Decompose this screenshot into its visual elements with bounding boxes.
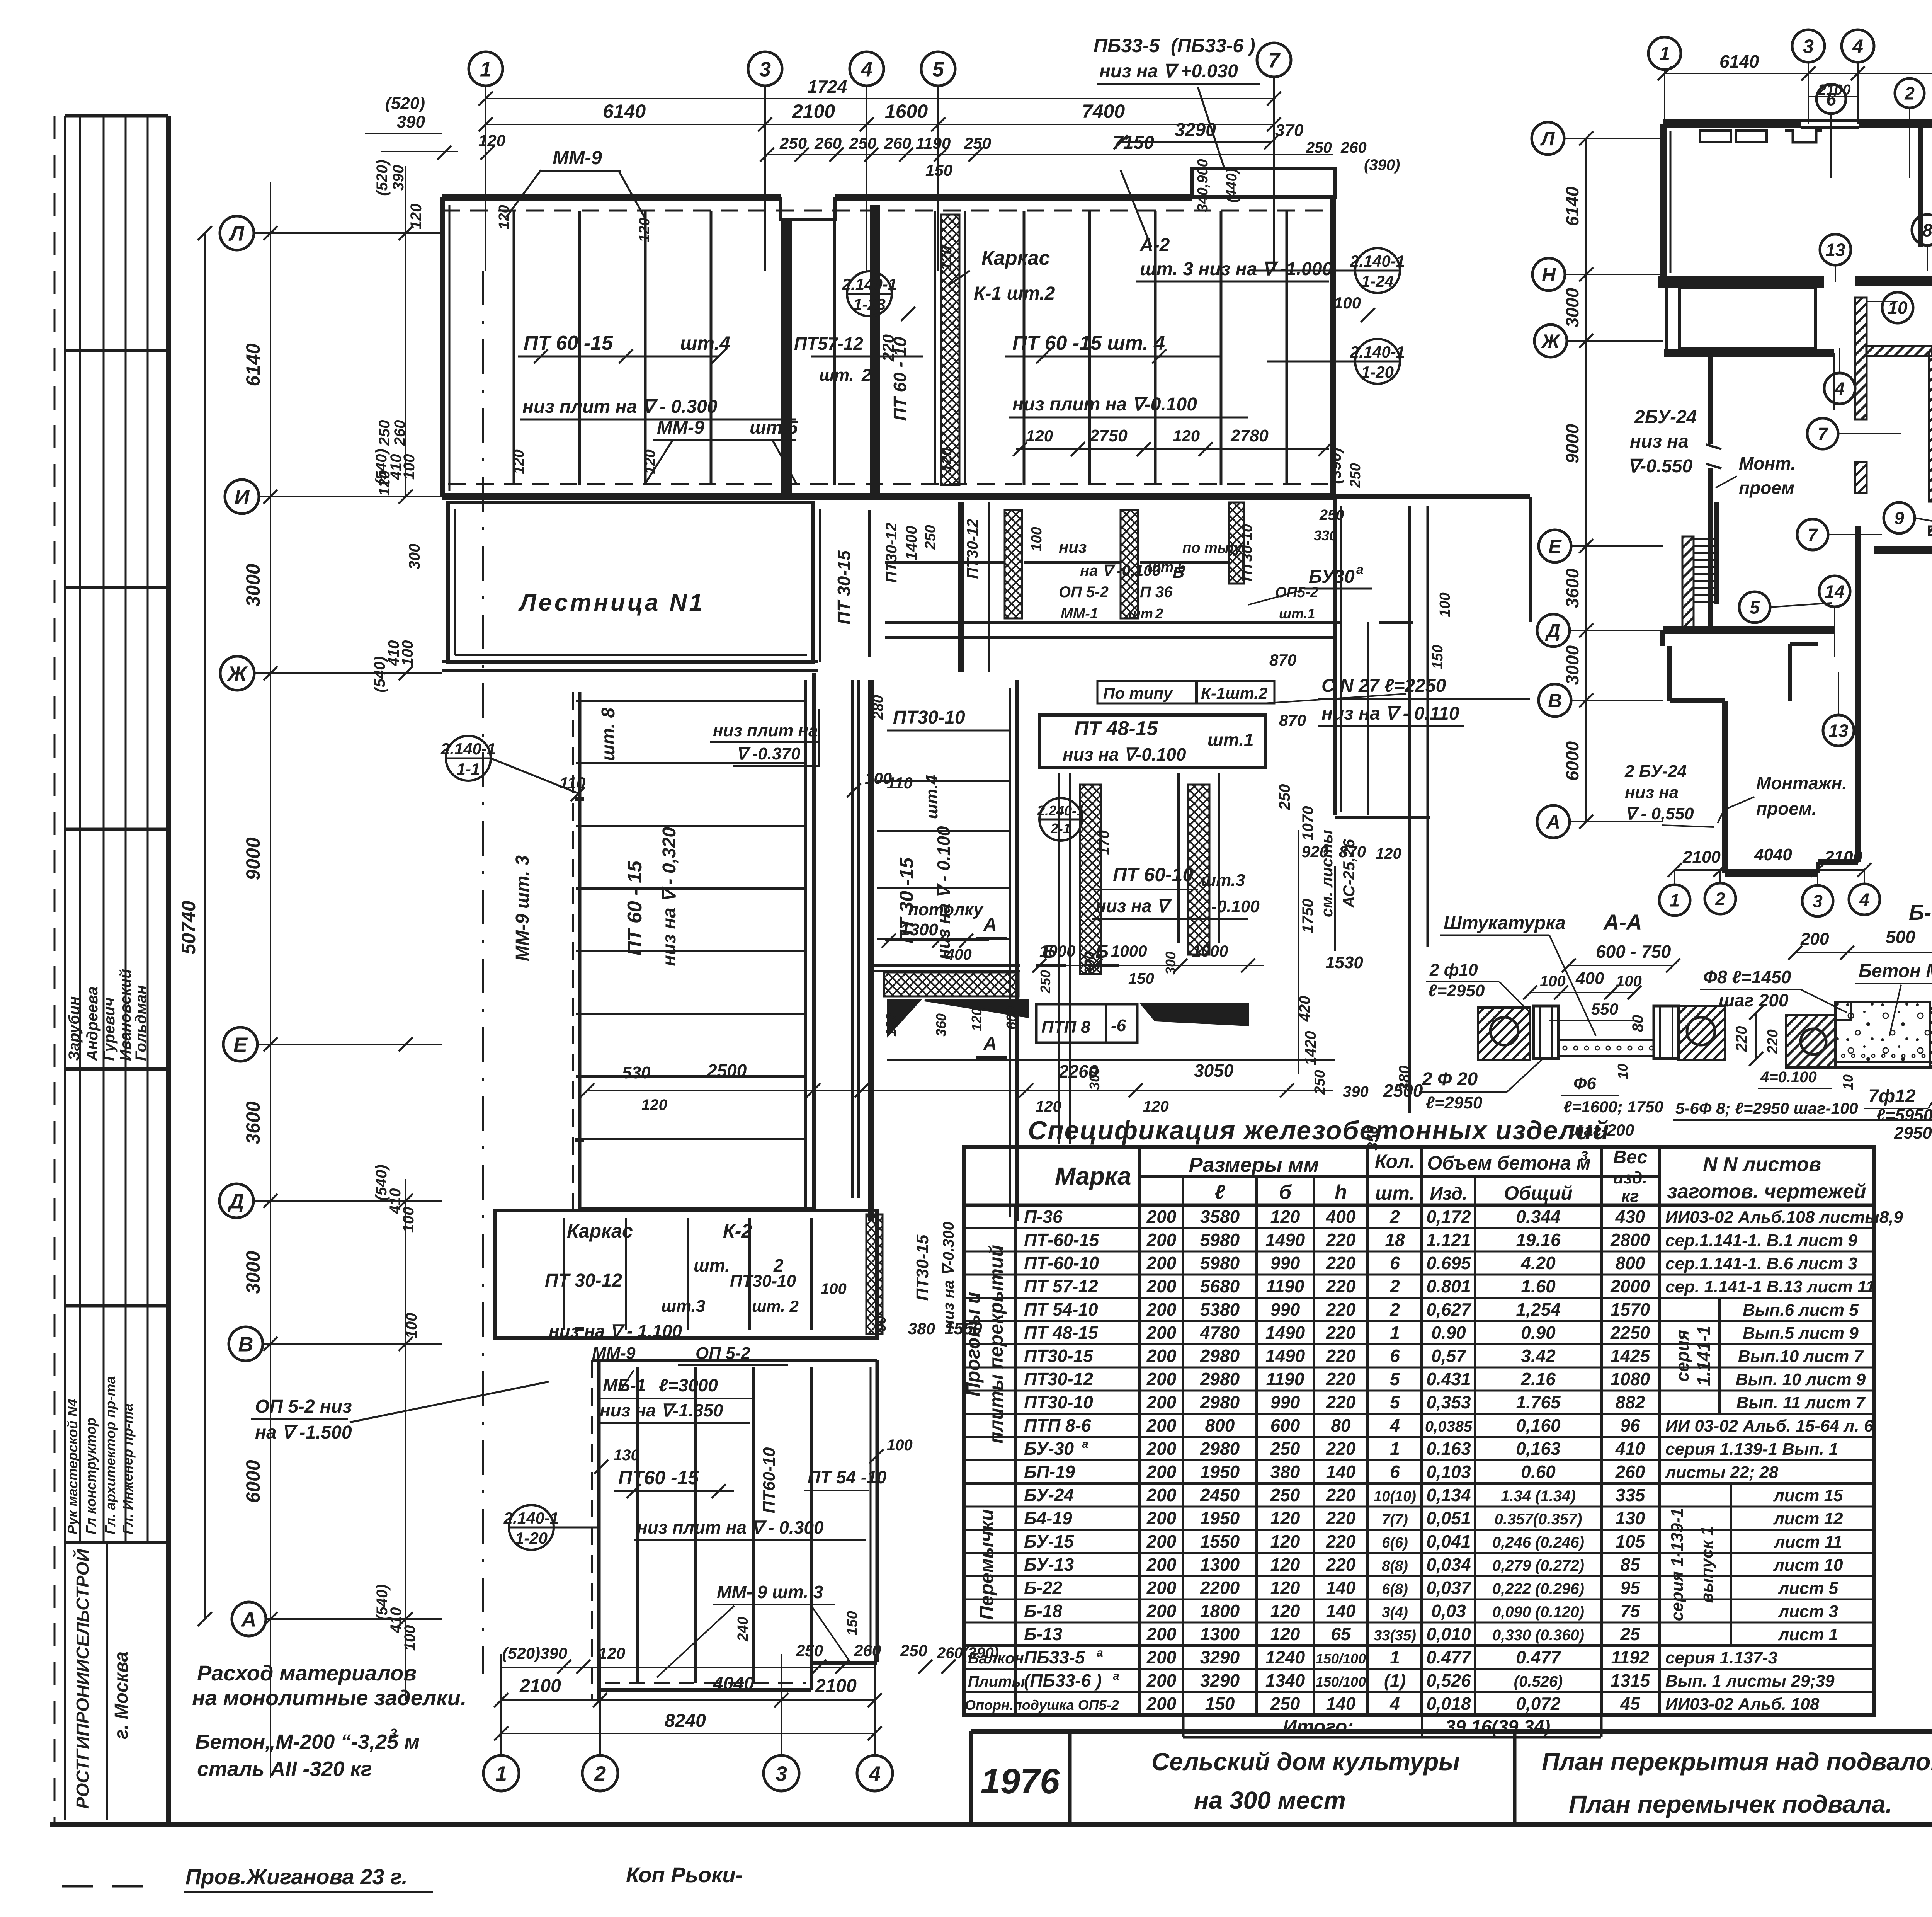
svg-text:шт.1: шт.1 xyxy=(1279,606,1315,621)
svg-text:шт.1: шт.1 xyxy=(1207,730,1254,750)
svg-text:ПТ 60-10: ПТ 60-10 xyxy=(1113,864,1193,885)
svg-text:1490: 1490 xyxy=(1265,1323,1305,1343)
svg-text:(520): (520) xyxy=(374,160,391,196)
svg-text:9000: 9000 xyxy=(1562,424,1582,463)
svg-text:Д: Д xyxy=(228,1190,244,1213)
svg-text:120: 120 xyxy=(511,449,527,474)
svg-text:120: 120 xyxy=(969,1008,985,1031)
svg-text:0,034: 0,034 xyxy=(1426,1554,1471,1575)
plan2 top bubbles xyxy=(1648,37,1681,70)
svg-text:П 36: П 36 xyxy=(1140,584,1173,601)
plan1 left dim chain xyxy=(270,182,271,1778)
svg-text:Гуревич: Гуревич xyxy=(101,998,118,1061)
svg-text:лист 5: лист 5 xyxy=(1778,1579,1838,1598)
svg-text:шаг 200: шаг 200 xyxy=(1719,990,1789,1010)
svg-text:200: 200 xyxy=(1146,1439,1177,1459)
svg-text:0,03: 0,03 xyxy=(1431,1601,1466,1621)
svg-text:150: 150 xyxy=(1128,970,1154,987)
svg-text:лист 10: лист 10 xyxy=(1773,1556,1843,1575)
svg-text:220: 220 xyxy=(1326,1531,1356,1551)
svg-text:ПТ 48-15: ПТ 48-15 xyxy=(1074,717,1158,740)
svg-text:3000: 3000 xyxy=(1562,645,1582,685)
svg-text:530: 530 xyxy=(622,1063,651,1082)
svg-text:10: 10 xyxy=(1840,1074,1856,1090)
svg-text:260: 260 xyxy=(1340,139,1367,156)
svg-text:0.60: 0.60 xyxy=(1521,1462,1556,1482)
svg-text:2750: 2750 xyxy=(1089,426,1128,445)
svg-text:870: 870 xyxy=(1269,651,1296,669)
svg-text:220: 220 xyxy=(1326,1369,1356,1389)
svg-text:6140: 6140 xyxy=(1719,51,1759,72)
svg-text:1425: 1425 xyxy=(1611,1346,1651,1366)
svg-text:С N 27 ℓ=2250: С N 27 ℓ=2250 xyxy=(1321,676,1446,696)
svg-text:1800: 1800 xyxy=(1200,1601,1240,1621)
svg-text:ПТ30-12: ПТ30-12 xyxy=(883,523,900,583)
svg-text:800: 800 xyxy=(1616,1253,1645,1273)
svg-text:1570: 1570 xyxy=(1611,1299,1650,1319)
svg-text:1: 1 xyxy=(1659,43,1670,65)
svg-text:ММ- 9 шт. 3: ММ- 9 шт. 3 xyxy=(717,1582,823,1602)
svg-text:18: 18 xyxy=(1385,1230,1405,1250)
svg-text:90: 90 xyxy=(873,1316,889,1331)
svg-text:К-1шт.2: К-1шт.2 xyxy=(1201,684,1267,702)
svg-text:ПТ 60 - 15: ПТ 60 - 15 xyxy=(624,860,646,956)
svg-text:120: 120 xyxy=(939,246,955,270)
bottom-left block xyxy=(591,1360,593,1701)
svg-text:ПТ60-10: ПТ60-10 xyxy=(760,1447,779,1514)
svg-text:низ на ∇-0.100: низ на ∇-0.100 xyxy=(1063,744,1186,764)
svg-text:200: 200 xyxy=(1146,1299,1177,1319)
svg-text:ПТ30-10: ПТ30-10 xyxy=(893,707,965,728)
svg-text:1490: 1490 xyxy=(1265,1346,1305,1366)
svg-text:200: 200 xyxy=(1146,1485,1177,1505)
svg-text:260: 260 xyxy=(854,1641,881,1660)
svg-text:3600: 3600 xyxy=(242,1101,264,1144)
svg-text:0,172: 0,172 xyxy=(1426,1207,1471,1227)
svg-text:25: 25 xyxy=(1620,1624,1641,1644)
svg-text:на монолитные заделки.: на монолитные заделки. xyxy=(192,1685,467,1710)
svg-text:2: 2 xyxy=(1389,1207,1400,1227)
svg-text:шт.5: шт.5 xyxy=(750,417,798,438)
stamp column rule xyxy=(103,116,105,1542)
svg-text:0.163: 0.163 xyxy=(1426,1439,1471,1459)
svg-text:3: 3 xyxy=(776,1762,787,1785)
svg-text:9000: 9000 xyxy=(242,837,264,880)
svg-text:200: 200 xyxy=(1800,930,1829,948)
svg-text:100: 100 xyxy=(1616,973,1642,990)
svg-text:2-1: 2-1 xyxy=(1050,821,1071,836)
svg-text:Д: Д xyxy=(1545,620,1560,642)
svg-text:7ф12: 7ф12 xyxy=(1868,1086,1916,1107)
svg-text:1340: 1340 xyxy=(1265,1670,1305,1691)
svg-text:Итого:: Итого: xyxy=(1283,1716,1354,1737)
svg-text:ПТ 57-12: ПТ 57-12 xyxy=(1024,1276,1098,1296)
svg-text:200: 200 xyxy=(1146,1624,1177,1644)
svg-text:шт.: шт. xyxy=(694,1255,730,1275)
svg-text:А: А xyxy=(241,1608,257,1631)
svg-text:2100: 2100 xyxy=(1818,82,1851,98)
svg-text:ПБ33-5: ПБ33-5 xyxy=(1024,1647,1085,1667)
svg-text:6: 6 xyxy=(1390,1253,1400,1273)
svg-text:0.695: 0.695 xyxy=(1426,1253,1471,1273)
svg-text:ПТ 54 -10: ПТ 54 -10 xyxy=(808,1467,887,1487)
svg-text:а: а xyxy=(1097,1646,1103,1659)
svg-text:120: 120 xyxy=(1270,1601,1300,1621)
svg-text:низ на ∇ - 0,320: низ на ∇ - 0,320 xyxy=(659,827,680,966)
stamp column box xyxy=(64,116,66,1820)
svg-text:260(390): 260(390) xyxy=(937,1645,999,1662)
svg-text:Лестница N1: Лестница N1 xyxy=(518,589,705,616)
svg-text:1490: 1490 xyxy=(1265,1230,1305,1250)
svg-text:250: 250 xyxy=(922,525,939,550)
svg-text:-6: -6 xyxy=(1111,1016,1126,1035)
svg-text:1300: 1300 xyxy=(900,920,938,939)
svg-text:2.16: 2.16 xyxy=(1520,1369,1556,1389)
plan2 bottom dims xyxy=(1675,869,1864,871)
svg-text:200: 200 xyxy=(1146,1531,1177,1551)
svg-text:Вып. 10 лист 9: Вып. 10 лист 9 xyxy=(1736,1370,1866,1389)
svg-text:Общий: Общий xyxy=(1504,1182,1573,1204)
svg-text:120: 120 xyxy=(1173,427,1200,445)
svg-text:1530: 1530 xyxy=(1325,953,1363,972)
svg-text:150/100: 150/100 xyxy=(1316,1674,1366,1690)
svg-text:низ плит на ∇-0.100: низ плит на ∇-0.100 xyxy=(1012,394,1197,415)
svg-text:ИИ03-02 Альб.108 листы8,9: ИИ03-02 Альб.108 листы8,9 xyxy=(1665,1208,1903,1227)
svg-text:1.60: 1.60 xyxy=(1521,1276,1556,1296)
svg-text:400: 400 xyxy=(946,946,972,963)
svg-text:8240: 8240 xyxy=(665,1711,706,1731)
svg-text:100: 100 xyxy=(401,454,418,480)
svg-text:2 Ф 20: 2 Ф 20 xyxy=(1422,1069,1478,1090)
svg-text:100: 100 xyxy=(887,1437,913,1454)
svg-text:6140: 6140 xyxy=(1562,186,1582,226)
svg-text:250: 250 xyxy=(1312,1070,1328,1095)
corridor mid xyxy=(868,680,874,1221)
svg-text:0,041: 0,041 xyxy=(1426,1531,1471,1551)
svg-text:2: 2 xyxy=(1904,83,1915,104)
svg-text:ПТ-60-15: ПТ-60-15 xyxy=(1024,1230,1100,1250)
svg-text:ПТ 54-10: ПТ 54-10 xyxy=(1024,1299,1098,1319)
svg-text:Ж: Ж xyxy=(226,662,248,685)
svg-text:К-2: К-2 xyxy=(723,1220,752,1242)
plan1 top axis bubbles xyxy=(469,52,503,86)
svg-text:2800: 2800 xyxy=(1610,1230,1650,1250)
svg-text:низ на ∇ - 0.110: низ на ∇ - 0.110 xyxy=(1321,703,1459,724)
svg-text:Б-22: Б-22 xyxy=(1024,1578,1062,1598)
svg-text:120: 120 xyxy=(642,449,658,474)
svg-text:260: 260 xyxy=(884,134,911,152)
svg-text:550: 550 xyxy=(1591,1000,1618,1018)
svg-text:200: 200 xyxy=(1146,1670,1177,1691)
svg-text:а: а xyxy=(1356,562,1364,577)
svg-text:120: 120 xyxy=(1270,1508,1300,1528)
svg-text:120: 120 xyxy=(478,131,505,150)
svg-text:Размеры мм: Размеры мм xyxy=(1189,1153,1319,1176)
plan2 axis bubbles left xyxy=(1532,122,1564,155)
svg-text:Б-13: Б-13 xyxy=(1024,1624,1062,1644)
svg-text:4040: 4040 xyxy=(1754,845,1792,864)
svg-text:6(6): 6(6) xyxy=(1382,1535,1408,1551)
svg-text:100: 100 xyxy=(401,1625,418,1651)
svg-text:4.20: 4.20 xyxy=(1520,1253,1556,1273)
svg-text:1550: 1550 xyxy=(1200,1531,1240,1551)
svg-text:220: 220 xyxy=(1326,1276,1356,1296)
svg-text:96: 96 xyxy=(1620,1415,1640,1435)
svg-text:1,254: 1,254 xyxy=(1516,1299,1560,1319)
svg-text:ПТП 8-6: ПТП 8-6 xyxy=(1024,1415,1091,1435)
svg-text:0,037: 0,037 xyxy=(1426,1578,1472,1598)
svg-text:0,010: 0,010 xyxy=(1426,1624,1471,1644)
svg-text:150: 150 xyxy=(1430,645,1446,669)
svg-text:13: 13 xyxy=(1828,721,1849,741)
svg-text:5-6Ф 8; ℓ=2950 шаг-100: 5-6Ф 8; ℓ=2950 шаг-100 xyxy=(1675,1099,1858,1117)
svg-text:85: 85 xyxy=(1620,1554,1641,1575)
svg-text:95: 95 xyxy=(1620,1578,1641,1598)
strip wall between tall room and corridor xyxy=(851,680,854,1198)
svg-text:Рук мастерской N4: Рук мастерской N4 xyxy=(65,1399,80,1534)
svg-text:низ на ∇ - 0.100: низ на ∇ - 0.100 xyxy=(934,826,954,959)
svg-text:0,103: 0,103 xyxy=(1426,1462,1471,1482)
svg-text:0,222 (0.296): 0,222 (0.296) xyxy=(1492,1580,1584,1597)
svg-text:ММ-9: ММ-9 xyxy=(553,147,602,169)
svg-text:250: 250 xyxy=(1306,139,1332,156)
svg-text:лист 12: лист 12 xyxy=(1773,1509,1843,1528)
svg-text:сер. 1.141-1 В.13 лист 11: сер. 1.141-1 В.13 лист 11 xyxy=(1665,1277,1875,1296)
concrete products table grid xyxy=(964,1147,1874,1715)
balcony dims xyxy=(1121,141,1271,143)
svg-text:ММ-9 шт. 3: ММ-9 шт. 3 xyxy=(512,855,533,961)
svg-text:0.477: 0.477 xyxy=(1516,1647,1561,1667)
svg-text:200: 200 xyxy=(1146,1415,1177,1435)
svg-text:Вес: Вес xyxy=(1613,1147,1648,1168)
svg-text:7: 7 xyxy=(1808,525,1818,545)
svg-text:Б-Б: Б-Б xyxy=(1909,900,1932,924)
svg-text:Бетон„М-200 “-3,25 м: Бетон„М-200 “-3,25 м xyxy=(195,1730,420,1754)
svg-text:Гольдман: Гольдман xyxy=(133,985,150,1061)
svg-text:1.121: 1.121 xyxy=(1426,1230,1471,1250)
svg-text:380: 380 xyxy=(1270,1462,1300,1482)
svg-text:низ на: низ на xyxy=(1625,783,1679,802)
svg-text:50740: 50740 xyxy=(178,901,199,954)
svg-text:ПТ30-15: ПТ30-15 xyxy=(1024,1346,1094,1366)
svg-text:Бетон М-200: Бетон М-200 xyxy=(1859,961,1932,981)
svg-text:ММ-1: ММ-1 xyxy=(1061,606,1098,622)
svg-text:7: 7 xyxy=(1268,49,1281,72)
svg-text:шт: шт xyxy=(1128,606,1153,621)
svg-text:б: б xyxy=(1279,1181,1292,1204)
svg-text:Расход материалов: Расход материалов xyxy=(197,1661,417,1685)
svg-text:1: 1 xyxy=(480,58,492,81)
svg-text:1950: 1950 xyxy=(1200,1508,1240,1528)
svg-text:1420: 1420 xyxy=(1302,1031,1319,1066)
svg-text:0.357(0.357): 0.357(0.357) xyxy=(1495,1511,1582,1528)
svg-text:БУ30: БУ30 xyxy=(1309,567,1355,587)
svg-text:200: 200 xyxy=(1146,1276,1177,1296)
svg-text:проем: проем xyxy=(1739,478,1794,498)
svg-text:2.140-1: 2.140-1 xyxy=(1350,343,1405,361)
svg-text:500: 500 xyxy=(1886,927,1915,947)
svg-text:1080: 1080 xyxy=(1611,1369,1650,1389)
dims under tall room xyxy=(587,1090,1333,1091)
svg-text:2980: 2980 xyxy=(1200,1369,1240,1389)
svg-text:0,160: 0,160 xyxy=(1516,1415,1561,1435)
svg-text:4: 4 xyxy=(1852,36,1863,57)
svg-text:∇ - 0,550: ∇ - 0,550 xyxy=(1625,804,1694,823)
svg-text:200: 200 xyxy=(1146,1647,1177,1667)
svg-text:120: 120 xyxy=(1036,1098,1061,1115)
svg-text:Вып.6 лист 5: Вып.6 лист 5 xyxy=(1743,1301,1859,1319)
svg-text:240: 240 xyxy=(735,1617,751,1641)
svg-text:низ на: низ на xyxy=(1630,431,1689,452)
itogo row xyxy=(1183,1736,1601,1739)
svg-text:220: 220 xyxy=(1326,1485,1356,1505)
svg-text:4: 4 xyxy=(861,58,872,81)
svg-text:плиты перекрытий: плиты перекрытий xyxy=(985,1245,1007,1444)
svg-text:2: 2 xyxy=(1389,1276,1400,1296)
svg-text:низ на ∇ +0.030: низ на ∇ +0.030 xyxy=(1099,61,1238,82)
svg-text:ИИ03-02 Альб. 108: ИИ03-02 Альб. 108 xyxy=(1665,1695,1820,1714)
svg-text:0,246 (0.246): 0,246 (0.246) xyxy=(1492,1534,1584,1551)
svg-text:5980: 5980 xyxy=(1200,1253,1240,1273)
svg-text:Е: Е xyxy=(233,1033,248,1056)
svg-text:2 ф10: 2 ф10 xyxy=(1429,960,1478,979)
svg-text:2780: 2780 xyxy=(1230,426,1269,445)
stamp organization (rotated) xyxy=(106,1542,108,1820)
svg-text:120: 120 xyxy=(1270,1624,1300,1644)
svg-text:2: 2 xyxy=(1155,606,1163,621)
svg-text:ПБ33-5: ПБ33-5 xyxy=(1094,35,1160,56)
svg-text:потолку: потолку xyxy=(908,900,984,919)
svg-text:1-20: 1-20 xyxy=(1361,363,1394,381)
svg-text:0,353: 0,353 xyxy=(1426,1392,1471,1412)
svg-text:ПТ-60-10: ПТ-60-10 xyxy=(1024,1253,1099,1273)
svg-text:400: 400 xyxy=(1326,1207,1356,1227)
svg-text:220: 220 xyxy=(1326,1253,1356,1273)
svg-text:200: 200 xyxy=(1146,1554,1177,1575)
svg-text:листы 22; 28: листы 22; 28 xyxy=(1665,1463,1779,1482)
svg-text:Сельский дом культуры: Сельский дом культуры xyxy=(1151,1748,1460,1776)
svg-text:7: 7 xyxy=(1818,424,1828,444)
svg-text:6: 6 xyxy=(1390,1462,1400,1482)
svg-text:1315: 1315 xyxy=(1611,1670,1651,1691)
balcony outline xyxy=(1192,169,1335,197)
svg-text:h: h xyxy=(1335,1181,1347,1204)
svg-text:100: 100 xyxy=(1437,592,1453,617)
svg-text:А-А: А-А xyxy=(1603,910,1642,934)
svg-text:220: 220 xyxy=(1326,1323,1356,1343)
svg-text:220: 220 xyxy=(879,334,897,362)
svg-text:2100: 2100 xyxy=(792,100,835,122)
svg-text:0,051: 0,051 xyxy=(1426,1508,1471,1528)
svg-text:220: 220 xyxy=(1326,1230,1356,1250)
svg-text:1000: 1000 xyxy=(1192,942,1228,960)
svg-text:280: 280 xyxy=(870,695,886,720)
svg-text:140: 140 xyxy=(1326,1462,1356,1482)
svg-text:3290: 3290 xyxy=(1200,1647,1240,1667)
svg-text:260: 260 xyxy=(814,134,842,152)
svg-text:250: 250 xyxy=(1347,463,1364,488)
svg-text:370: 370 xyxy=(1275,121,1304,140)
svg-text:220: 220 xyxy=(1326,1299,1356,1319)
stamp column outer dashed line xyxy=(54,116,56,1822)
svg-text:380: 380 xyxy=(1396,1066,1413,1091)
svg-text:серия 1.139-1 Вып. 1: серия 1.139-1 Вып. 1 xyxy=(1665,1440,1838,1459)
svg-text:шт. 3 низ на ∇ -1.000: шт. 3 низ на ∇ -1.000 xyxy=(1140,259,1332,279)
svg-text:низ плит на ∇ - 0.300: низ плит на ∇ - 0.300 xyxy=(637,1517,824,1537)
svg-text:N N листов: N N листов xyxy=(1703,1153,1821,1176)
svg-text:1-23: 1-23 xyxy=(853,295,886,313)
svg-text:1192: 1192 xyxy=(1611,1647,1650,1667)
svg-text:ℓ=2950: ℓ=2950 xyxy=(1426,1093,1483,1112)
svg-text:200: 200 xyxy=(1146,1369,1177,1389)
svg-text:1: 1 xyxy=(1390,1647,1400,1667)
svg-text:Спецификация железобетонных: Спецификация железобетонных изделий xyxy=(1028,1116,1610,1145)
svg-text:2100: 2100 xyxy=(815,1676,857,1696)
svg-text:0.344: 0.344 xyxy=(1516,1207,1560,1227)
svg-text:0,330 (0.360): 0,330 (0.360) xyxy=(1492,1627,1584,1644)
svg-text:882: 882 xyxy=(1616,1392,1645,1412)
concrete products table rows xyxy=(964,1204,1874,1207)
svg-text:А: А xyxy=(983,1033,997,1054)
svg-text:Гл. Инженер пр-та: Гл. Инженер пр-та xyxy=(120,1403,136,1534)
svg-text:ПТ 30-12: ПТ 30-12 xyxy=(545,1270,622,1291)
svg-text:1: 1 xyxy=(1670,890,1680,911)
svg-text:1-20: 1-20 xyxy=(515,1529,548,1547)
svg-text:Перемычки: Перемычки xyxy=(976,1509,997,1620)
svg-text:3000: 3000 xyxy=(242,1251,264,1294)
handwritten notes bottom left xyxy=(62,1885,93,1888)
svg-text:РОСТГИПРОНИИСЕЛЬСТРОЙ: РОСТГИПРОНИИСЕЛЬСТРОЙ xyxy=(73,1549,93,1809)
plan1 axis bubbles left xyxy=(220,216,254,250)
svg-text:335: 335 xyxy=(1616,1485,1646,1505)
svg-text:1300: 1300 xyxy=(1200,1624,1240,1644)
svg-text:А: А xyxy=(983,914,997,935)
svg-text:Опорн.подушка ОП5-2: Опорн.подушка ОП5-2 xyxy=(965,1697,1119,1713)
svg-text:2980: 2980 xyxy=(1200,1346,1240,1366)
svg-text:шаг-200: шаг-200 xyxy=(1570,1121,1634,1139)
svg-text:1190: 1190 xyxy=(1266,1276,1304,1296)
svg-text:кг: кг xyxy=(1621,1187,1639,1206)
svg-text:6(8): 6(8) xyxy=(1382,1581,1408,1597)
svg-text:33(35): 33(35) xyxy=(1374,1628,1416,1644)
svg-text:600 - 750: 600 - 750 xyxy=(1596,941,1671,962)
tall left room xyxy=(442,669,818,672)
svg-text:МБ-1: МБ-1 xyxy=(603,1375,646,1395)
svg-text:140: 140 xyxy=(1326,1601,1356,1621)
svg-text:4: 4 xyxy=(1859,890,1869,910)
stamp horizontal dividers xyxy=(65,349,168,352)
svg-text:2.240-1: 2.240-1 xyxy=(1037,803,1084,819)
svg-text:120: 120 xyxy=(408,204,425,230)
svg-text:2.140-1: 2.140-1 xyxy=(1350,252,1405,270)
svg-text:0.477: 0.477 xyxy=(1426,1647,1472,1667)
svg-text:2: 2 xyxy=(1715,889,1725,909)
svg-text:5: 5 xyxy=(932,58,944,81)
svg-text:0,627: 0,627 xyxy=(1426,1299,1472,1319)
svg-text:1240: 1240 xyxy=(1265,1647,1305,1667)
svg-text:3290: 3290 xyxy=(1200,1670,1240,1691)
svg-text:80: 80 xyxy=(1629,1015,1646,1032)
svg-text:К-1 шт.2: К-1 шт.2 xyxy=(974,283,1055,304)
svg-text:0,134: 0,134 xyxy=(1426,1485,1471,1505)
svg-text:170: 170 xyxy=(1096,830,1112,855)
svg-text:390: 390 xyxy=(1343,1083,1369,1100)
svg-text:220: 220 xyxy=(1765,1029,1781,1054)
svg-text:Б-18: Б-18 xyxy=(1024,1601,1062,1621)
svg-text:5380: 5380 xyxy=(1200,1299,1240,1319)
svg-text:БП-19: БП-19 xyxy=(1024,1462,1075,1482)
svg-text:Ф6: Ф6 xyxy=(1573,1074,1596,1093)
